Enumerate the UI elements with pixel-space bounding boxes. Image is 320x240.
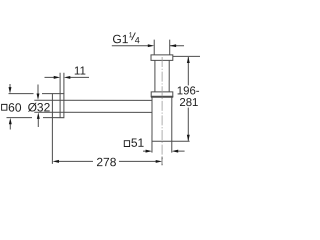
height dimension line upper segment <box>187 57 189 85</box>
height dimension line lower segment <box>187 108 189 141</box>
dimension 32 top arrowhead <box>37 93 40 99</box>
trap body right wall <box>171 97 173 152</box>
projection extension line left <box>51 118 53 164</box>
rosette bottom extension line right segment <box>43 117 52 119</box>
dimension 32 bottom arrow stem <box>37 118 39 127</box>
thread dimension right tail <box>170 45 184 47</box>
outlet pipe bottom line <box>34 111 152 113</box>
trap body bottom edge and right extension <box>152 140 190 142</box>
rosette top extension line right segment <box>42 93 52 95</box>
svg-text:1: 1 <box>129 30 133 39</box>
thread fraction slash <box>132 33 136 41</box>
dimension 11 line left tail <box>45 76 55 78</box>
svg-text:G1: G1 <box>112 32 128 46</box>
union nut collar <box>151 92 173 97</box>
dimension 60 bottom arrowhead <box>9 118 12 124</box>
thread extension line right <box>169 40 171 55</box>
height dimension bottom arrowhead <box>187 135 190 141</box>
rosette top extension line left segment <box>9 93 34 95</box>
dimension 51 line left tail <box>143 150 146 152</box>
centerline of trap body <box>161 57 163 164</box>
rosette face plate line <box>59 94 61 118</box>
dimension 11 extension line right <box>63 73 65 94</box>
inlet pipe left wall <box>154 60 156 92</box>
wall rosette outline <box>52 94 64 118</box>
svg-text:196-: 196- <box>177 85 200 97</box>
dimension 60 top arrowhead <box>9 87 12 93</box>
projection dimension line left segment <box>58 160 93 162</box>
dimension 60 top arrow stem <box>9 84 11 88</box>
thread leader underline G1 1/4 <box>112 45 149 47</box>
inlet pipe top flange <box>151 55 173 61</box>
thread dimension left arrowhead <box>148 44 154 47</box>
thread dimension right arrowhead <box>170 44 176 47</box>
dimension 11 line right tail <box>70 76 89 78</box>
dimension 11 right arrowhead <box>64 76 70 79</box>
dimension 51 left arrowhead <box>146 150 152 153</box>
trap body left wall <box>151 97 153 152</box>
dimension 11 left arrowhead <box>54 76 60 79</box>
projection left arrowhead <box>53 160 59 163</box>
height dimension top arrowhead <box>187 57 190 63</box>
svg-text:4: 4 <box>135 35 140 45</box>
dimension 32 bottom arrowhead <box>37 112 40 118</box>
dimension 51 line right tail <box>178 150 185 152</box>
svg-text:11: 11 <box>74 64 86 77</box>
projection dimension line right segment <box>119 160 156 162</box>
svg-text:278: 278 <box>96 155 116 169</box>
thread extension line left <box>153 40 155 55</box>
union nut collar thick bottom edge <box>151 96 173 98</box>
svg-text:51: 51 <box>131 136 145 150</box>
projection right arrowhead <box>156 160 162 163</box>
centerline solid end tick at projection dimension <box>161 157 163 166</box>
dimension 51 right arrowhead <box>172 150 178 153</box>
height dimension top extension line <box>173 55 200 57</box>
dimension 60 bottom arrow stem <box>9 124 11 130</box>
outlet pipe top line <box>34 99 152 101</box>
dimension 32 top arrow stem <box>37 84 39 94</box>
label square symbol 51 <box>124 141 129 147</box>
svg-text:281: 281 <box>179 97 198 109</box>
dimension 11 extension line left <box>59 73 61 94</box>
inlet pipe right wall <box>168 60 170 91</box>
svg-text:60: 60 <box>8 101 22 115</box>
label square symbol 60 <box>2 104 7 110</box>
svg-text:Ø32: Ø32 <box>28 100 51 114</box>
rosette bottom extension line left segment <box>6 117 31 119</box>
